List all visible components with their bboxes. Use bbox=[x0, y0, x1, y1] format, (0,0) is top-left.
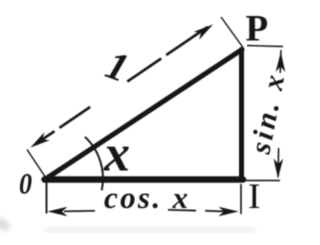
arrowhead down of sin line bbox=[273, 158, 283, 178]
arrowhead upper-right of dashed line bbox=[194, 21, 216, 40]
triangle hypotenuse OP bbox=[46, 50, 243, 180]
sin dimension bottom tick bbox=[244, 180, 280, 182]
svg-text:P: P bbox=[246, 9, 269, 50]
dash 4 bbox=[166, 27, 207, 55]
faint smudge bottom strip bbox=[45, 228, 255, 232]
cos dimension right tick bbox=[240, 184, 242, 214]
tick at P end of dashed line bbox=[221, 17, 243, 48]
cos dimension line right dash a bbox=[168, 209, 196, 212]
tick at O end of dashed line bbox=[27, 150, 46, 179]
triangle base OI bbox=[45, 176, 244, 182]
triangle vertical side PI bbox=[239, 50, 244, 178]
angle arc at O bbox=[85, 137, 103, 191]
cos dimension line left dash bbox=[64, 210, 95, 213]
cos dimension left tick bbox=[46, 182, 48, 214]
svg-text:x: x bbox=[103, 126, 130, 183]
dash 3 bbox=[127, 59, 161, 82]
arrowhead left of cos line bbox=[48, 207, 68, 217]
svg-text:cos. x: cos. x bbox=[104, 180, 188, 215]
arrowhead right of cos line bbox=[219, 207, 239, 217]
dashed dimension line of hypotenuse: dash 1 bbox=[40, 131, 55, 141]
faint smudge bottom-left corner bbox=[0, 216, 12, 233]
sin dimension line upper part bbox=[279, 50, 282, 73]
arrowhead up of sin line bbox=[276, 52, 286, 72]
arrowhead lower-left of dashed line bbox=[28, 132, 50, 151]
sin dimension top tick bbox=[247, 46, 283, 47]
cos dimension line right dash b bbox=[205, 210, 224, 213]
svg-text:0: 0 bbox=[19, 168, 32, 201]
svg-text:I: I bbox=[248, 176, 261, 216]
sin dimension line lower part bbox=[277, 148, 280, 177]
dash 2 bbox=[60, 107, 91, 128]
